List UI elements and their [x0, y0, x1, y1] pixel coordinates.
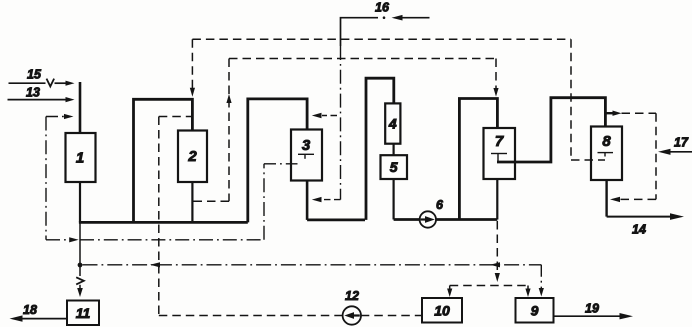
wire: box 8 outlet down	[605, 180, 607, 217]
svg-text:10: 10	[434, 303, 450, 319]
svg-text:4: 4	[388, 116, 397, 132]
wire: product line from bus down to box 11	[79, 222, 81, 276]
box 2	[178, 131, 207, 183]
box 1	[66, 133, 96, 182]
wire: stream 15 line	[9, 82, 46, 84]
box 4	[385, 103, 400, 143]
wire: stream 16 dash-dot vertical at x=340.5	[340, 46, 342, 200]
arrow into riser from 15	[66, 81, 75, 86]
box 10	[422, 298, 462, 323]
level mark in box 7	[491, 153, 507, 155]
box 7	[484, 128, 516, 179]
wire: dashed recycle D3 (box 10 via pump 12 up to box 2 riser)	[159, 116, 192, 118]
wire: dashed recycle D5 around box 8	[622, 112, 657, 114]
wire: stream 18 out	[22, 318, 68, 320]
valve v on stream 15	[47, 79, 55, 87]
box 8	[591, 127, 622, 181]
svg-text:11: 11	[76, 305, 91, 321]
wire: feed loop over box 2	[134, 99, 193, 222]
svg-text:19: 19	[585, 302, 599, 316]
wire: stream 17 in	[669, 151, 692, 153]
svg-text:1: 1	[76, 150, 84, 167]
wire: stream 16 (dash-dot arrow to left, corner down)	[401, 17, 430, 19]
wire: top branch from riser 8	[605, 112, 613, 114]
svg-text:7: 7	[495, 133, 504, 150]
svg-text:13: 13	[26, 86, 40, 100]
svg-text:8: 8	[602, 133, 611, 150]
wire: box 3 outlet down	[306, 181, 309, 220]
box 11	[67, 301, 99, 326]
node: junction dot	[78, 263, 83, 268]
pump 12	[343, 306, 361, 324]
svg-text:12: 12	[345, 289, 359, 303]
svg-text:16: 16	[375, 1, 390, 15]
wire: box 5 outlet down to bus	[393, 179, 395, 220]
box 9	[516, 298, 554, 323]
wire: bus 1 (bottoms header boxes 1-2 to loop 3)	[79, 221, 248, 224]
wire: feed loop over box 4	[366, 78, 394, 220]
wire: stream 14 out	[607, 216, 672, 218]
wire: dashed overhead line D2 (box 2 bottoms vapor to box 7 top)	[229, 58, 496, 60]
pump 6	[420, 211, 436, 227]
svg-text:18: 18	[23, 303, 37, 317]
wire: box 2 outlet down to bus	[191, 182, 193, 222]
wire: branch of 16 into box 3 outlet	[322, 199, 341, 201]
wire: dash-dot feed DD1 into box 1 riser	[46, 116, 65, 118]
wire: stream 19 out	[554, 315, 622, 317]
wire: feed loop over box 7	[459, 99, 497, 220]
wire: riser into box 1	[79, 82, 82, 133]
wire: side draw box 7 to loop over box 8	[497, 98, 605, 162]
level mark in box 3	[298, 153, 314, 155]
svg-text:5: 5	[390, 159, 398, 175]
wire: dash-dot DD2 (box 3 side stream to product line)	[46, 239, 70, 241]
svg-text:2: 2	[187, 148, 197, 165]
svg-text:14: 14	[632, 223, 646, 237]
svg-text:3: 3	[302, 137, 311, 154]
wire: bus 2	[307, 218, 365, 221]
wire: stream 13 line	[8, 99, 68, 101]
valve v above box 11	[76, 277, 84, 284]
wire: feed loop over box 3	[248, 99, 307, 222]
wire: dash-dot collector DD3 to box 9	[83, 264, 542, 266]
arrow into riser from 13	[66, 97, 75, 102]
wire: dashed overhead line D1 (box 8 side to box 2 top)	[192, 38, 571, 40]
svg-text:15: 15	[27, 68, 42, 82]
svg-text:17: 17	[674, 136, 689, 150]
svg-text:9: 9	[531, 303, 539, 319]
box 5	[381, 155, 408, 179]
level mark in box 8	[598, 152, 614, 154]
wire: bus 3 through pump 6	[394, 218, 498, 221]
wire: box 7 outlet down to bus end	[496, 179, 498, 220]
wire: box 1 outlet down to bus	[79, 182, 81, 222]
box 3	[291, 130, 322, 181]
wire: branch of 16 into riser of box 3	[322, 115, 337, 117]
svg-text:6: 6	[436, 198, 444, 212]
wire: dashed D4 box 7 bottoms down to split	[496, 221, 498, 274]
wire: box 4 to box 5	[393, 144, 395, 155]
